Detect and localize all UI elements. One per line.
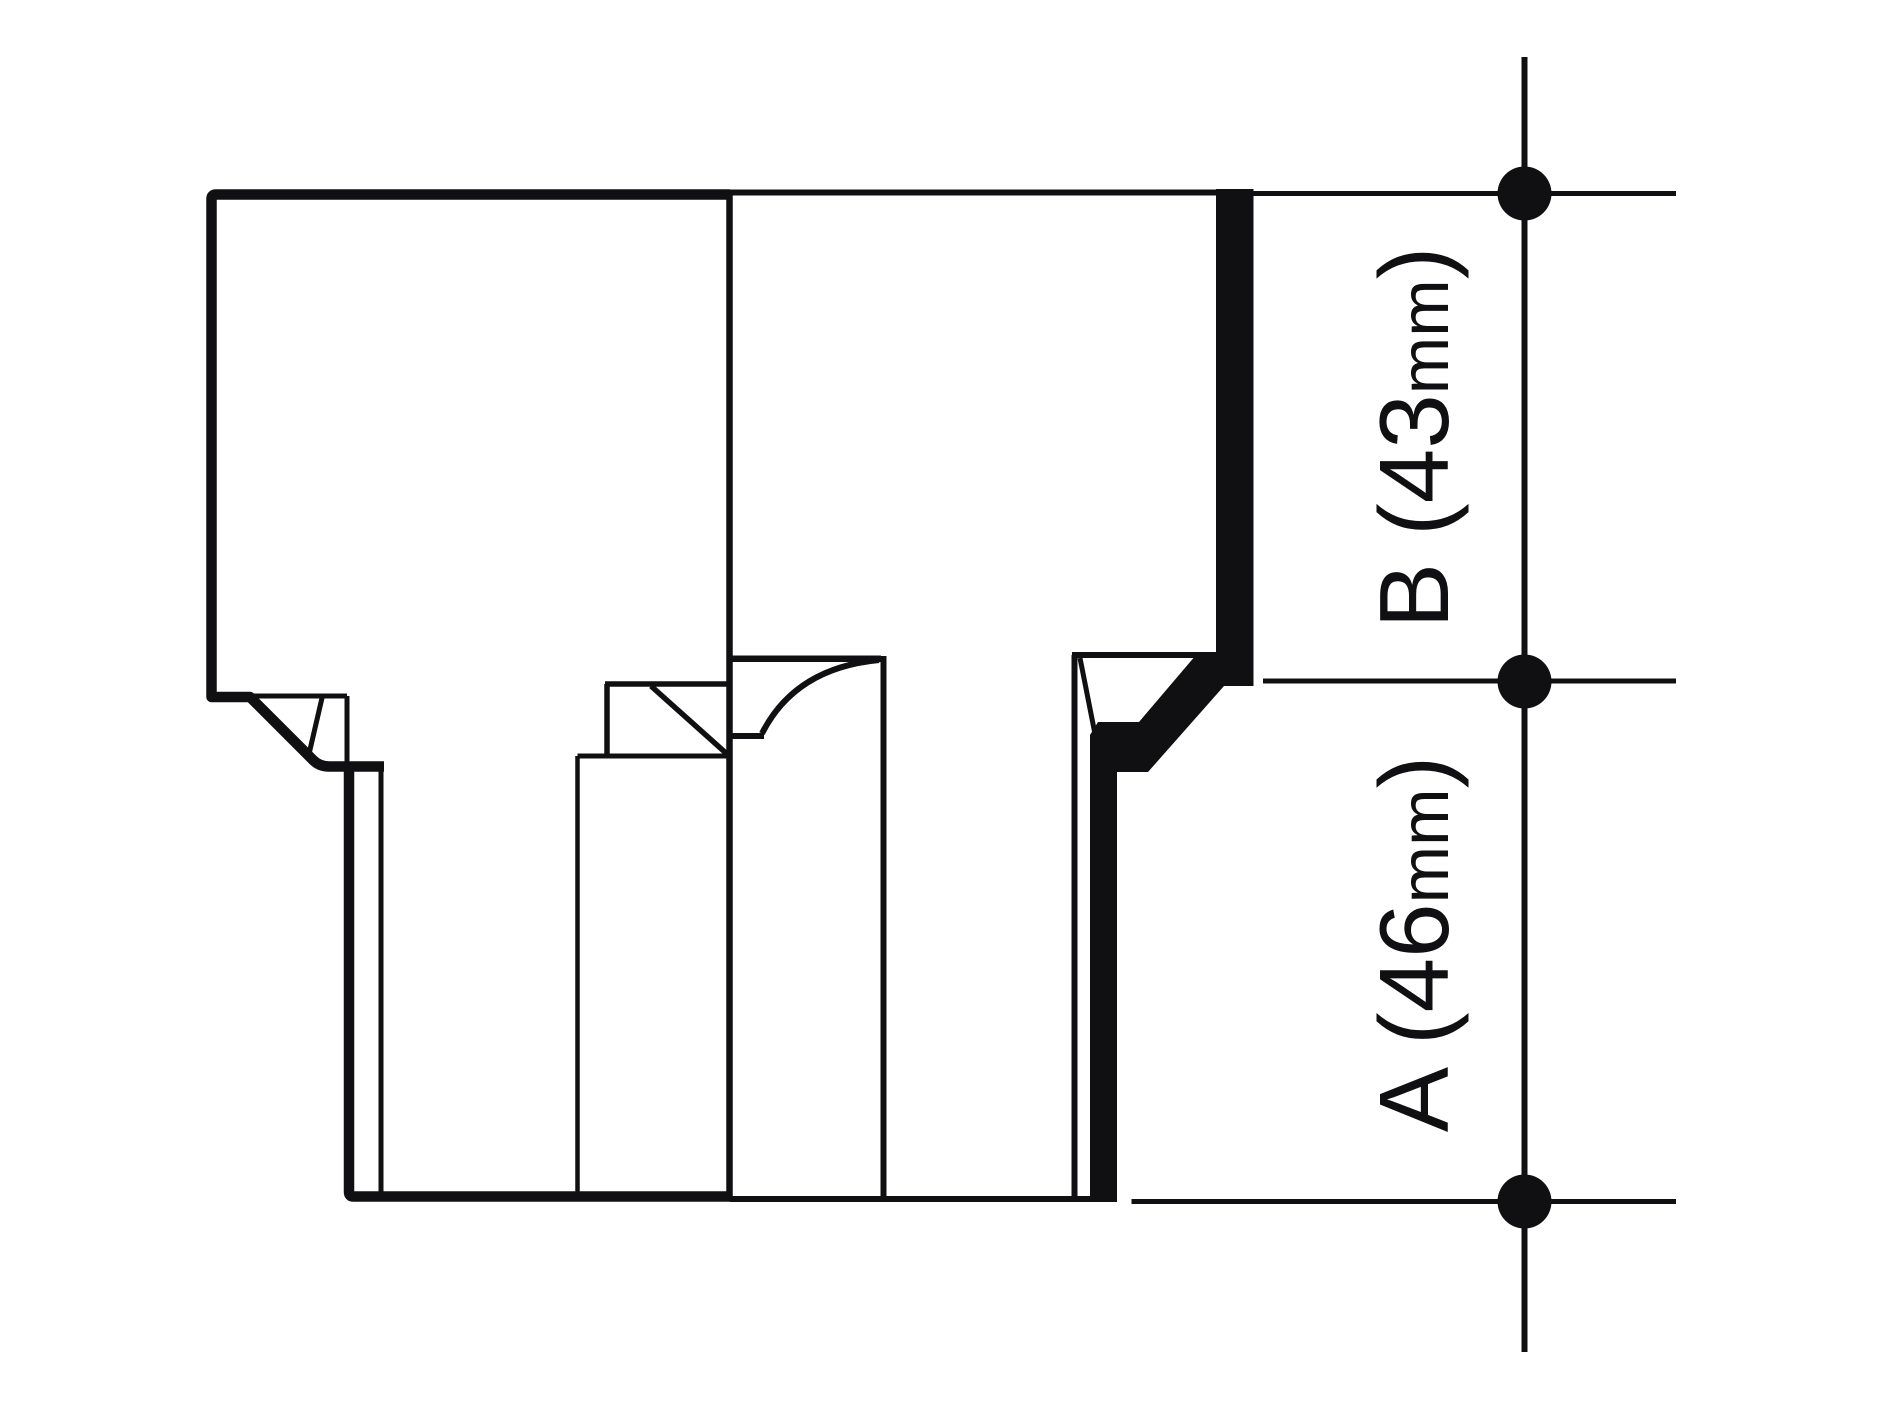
counterbore top line (right)	[1072, 652, 1216, 658]
counterbore slant line (right)	[1080, 658, 1095, 734]
funnel top line	[730, 655, 882, 662]
top edge (right half)	[730, 190, 1254, 196]
funnel bottom stub	[730, 733, 765, 739]
centre parting line	[726, 191, 733, 1199]
mid insert top line	[605, 681, 729, 687]
extension line bottom (A lower)	[1132, 1199, 1677, 1204]
funnel throat curve	[762, 660, 879, 734]
adapter body outer profile (left half, thick outline)	[212, 195, 731, 767]
inner wall thin vertical (right)	[1072, 655, 1078, 1199]
mid insert diagonal	[651, 686, 727, 754]
funnel right wall	[881, 656, 887, 1199]
lower spigot outer wall and bottom edge (left half)	[349, 762, 730, 1197]
dimension marker dot bottom	[1498, 1175, 1552, 1229]
spigot inner wall thin line (left)	[379, 766, 384, 1196]
extension line top (B upper)	[1253, 191, 1676, 196]
dimension marker dot top	[1498, 167, 1552, 221]
dimension marker dot middle	[1498, 655, 1552, 709]
groove thin diagonal (left detail)	[309, 698, 322, 754]
bottom edge (right half)	[730, 1196, 1115, 1202]
sectioned right wall (filled cut area)	[1090, 189, 1254, 1202]
extension line middle (B lower / A upper)	[1263, 679, 1676, 684]
groove top thin line (left detail)	[216, 694, 347, 699]
mid insert left vertical	[604, 684, 610, 756]
svg-text:B (43mm): B (43mm)	[1359, 247, 1469, 629]
mid insert step-down vertical	[575, 756, 580, 1196]
mid insert bottom ledge	[578, 754, 730, 759]
svg-text:A (46mm): A (46mm)	[1359, 756, 1469, 1132]
dimension axis vertical line	[1522, 57, 1528, 1352]
groove right thin vertical (left detail)	[345, 696, 350, 764]
